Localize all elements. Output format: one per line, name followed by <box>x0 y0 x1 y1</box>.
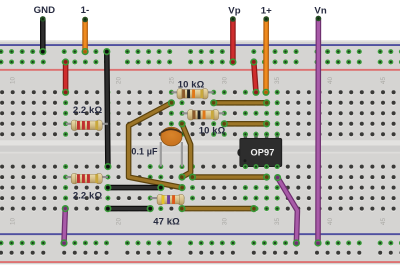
svg-text:20: 20 <box>116 218 123 226</box>
wire W6 red jumper left <box>63 59 69 95</box>
svg-text:1+: 1+ <box>261 6 272 17</box>
resistor R3 10k <box>171 89 213 99</box>
svg-text:40: 40 <box>327 77 334 85</box>
svg-text:20: 20 <box>116 77 123 85</box>
wire W9 black row h <box>105 185 164 191</box>
capacitor C1 0.1uF <box>161 127 182 167</box>
svg-text:2.2 kΩ: 2.2 kΩ <box>73 191 103 202</box>
svg-text:2.2 kΩ: 2.2 kΩ <box>73 105 103 116</box>
svg-text:40: 40 <box>327 218 334 226</box>
svg-text:30: 30 <box>221 218 228 226</box>
wire W16 brown row g <box>190 174 270 180</box>
wire W11 purple bottom left <box>61 206 68 246</box>
svg-text:30: 30 <box>221 77 228 85</box>
wire W18 purple diagonal <box>275 175 299 246</box>
wire W2 orange 1- <box>82 17 88 55</box>
resistor R4 10k <box>182 110 224 120</box>
resistor R1 2.2k <box>66 120 108 130</box>
wire W12 brown col16b to col17h <box>129 100 185 190</box>
wire W3 red Vp <box>230 16 236 65</box>
svg-text:10 kΩ: 10 kΩ <box>178 79 205 90</box>
wire W10 black row j <box>105 206 153 212</box>
svg-text:Vp: Vp <box>228 6 240 17</box>
wire W5 purple Vn <box>315 16 321 246</box>
svg-text:45: 45 <box>380 77 387 85</box>
svg-text:1-: 1- <box>81 5 90 16</box>
svg-text:10: 10 <box>10 218 17 226</box>
svg-text:10: 10 <box>10 77 17 85</box>
wire W14 brown row b <box>211 100 270 106</box>
wire W15 brown row d <box>222 121 270 127</box>
wire W17 brown row j <box>179 206 256 212</box>
wire W8 black long rail to f <box>104 49 111 170</box>
svg-text:GND: GND <box>34 5 56 16</box>
op-amp U1 OP97 <box>237 132 281 169</box>
svg-text:10 kΩ: 10 kΩ <box>199 126 226 137</box>
svg-text:35: 35 <box>274 218 281 226</box>
svg-text:Vn: Vn <box>314 6 326 17</box>
svg-text:OP97: OP97 <box>251 147 275 157</box>
svg-text:45: 45 <box>380 218 387 226</box>
wire W7 red jumper right <box>251 59 259 95</box>
wire W13 brown col17d to col17g <box>179 121 190 180</box>
svg-text:25: 25 <box>168 77 175 85</box>
wire W4 orange 1+ <box>263 16 269 95</box>
svg-text:0.1 µF: 0.1 µF <box>131 147 158 157</box>
resistor R2 2.2k <box>66 173 108 183</box>
resistor R5 47k <box>150 194 184 204</box>
wire W1 black GND <box>40 16 46 54</box>
svg-text:35: 35 <box>274 77 281 85</box>
svg-text:47 kΩ: 47 kΩ <box>153 216 180 227</box>
